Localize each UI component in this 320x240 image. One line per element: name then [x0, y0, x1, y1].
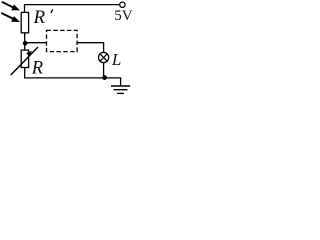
- background: [0, 0, 132, 97]
- light arrow 2 (into photoresistor R'): [1, 13, 20, 22]
- dashed box (control circuit): [47, 30, 78, 51]
- wire: top rail from R' to 5V terminal: [24, 4, 120, 6]
- svg-text:5V: 5V: [114, 8, 132, 24]
- svg-text:R: R: [31, 59, 43, 79]
- node A (junction dot between R' and R): [23, 41, 28, 46]
- lamp L (circle with cross): [99, 52, 109, 62]
- wire: down to lamp top: [103, 43, 105, 53]
- wire: branch from node A to dashed box: [25, 42, 46, 44]
- wire: top lead down to R': [24, 5, 26, 13]
- wire: lead from R' to R: [24, 33, 26, 51]
- ground bar 1: [111, 85, 130, 87]
- photoresistor R' body: [21, 12, 28, 32]
- rheostat arrow (diagonal, solid head): [11, 47, 38, 75]
- wire: bottom rail: [24, 77, 121, 79]
- wire: from dashed box to lamp (horizontal): [77, 42, 104, 44]
- node B (junction dot at lamp bottom): [102, 75, 107, 80]
- svg-text:R: R: [33, 7, 46, 28]
- ground stem: [120, 78, 122, 86]
- light arrow 1 (into photoresistor R'): [2, 2, 20, 11]
- terminal 5V (open circle): [120, 2, 125, 7]
- wire: lead from R to bottom rail: [24, 68, 26, 79]
- label prime of R': [51, 9, 53, 13]
- wire: lamp bottom lead: [103, 63, 105, 79]
- svg-text:L: L: [111, 50, 121, 69]
- rheostat R body: [21, 50, 28, 67]
- ground bar 3: [117, 92, 124, 94]
- ground bar 2: [114, 89, 128, 91]
